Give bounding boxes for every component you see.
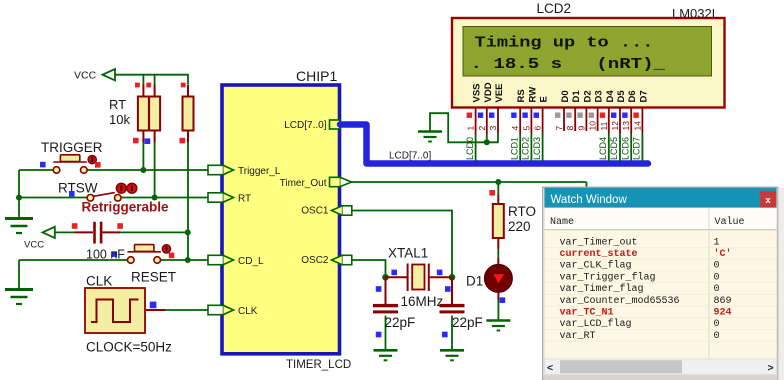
logic marker pin 11 <box>600 113 605 118</box>
wire pin 2 to ground net <box>486 134 488 143</box>
wire R1 to trigger net <box>142 143 144 171</box>
watch row var_Counter_mod65536 <box>545 305 777 307</box>
svg-text:D6: D6 <box>627 90 638 102</box>
dialog header row <box>545 208 777 230</box>
svg-text:VEE: VEE <box>494 83 505 102</box>
pin OSC2 <box>332 255 352 264</box>
watch row var_CLK_flag <box>545 270 777 272</box>
pin RTO top lead <box>497 195 499 204</box>
svg-text:1: 1 <box>466 126 476 131</box>
pin D1 cathode lead <box>497 292 499 300</box>
svg-text:var_CLK_flag: var_CLK_flag <box>560 260 632 272</box>
pin 2 VDD lead <box>486 108 488 134</box>
logic marker pin 14 <box>633 113 638 118</box>
svg-text:OSC1: OSC1 <box>301 206 329 217</box>
switch RTSW <box>87 193 121 202</box>
pin R2 bottom lead <box>154 131 156 143</box>
dialog close button <box>760 191 776 207</box>
wire R3 down to CD_L net <box>187 143 189 261</box>
wire: VCC top rail <box>115 75 189 84</box>
svg-text:var_Timer_flag: var_Timer_flag <box>560 283 644 295</box>
svg-text:1: 1 <box>714 237 720 248</box>
resistor RTO 220 <box>493 204 504 238</box>
actuator RESET button <box>162 245 170 253</box>
watch row var_RT <box>545 340 777 342</box>
node junction Timer_Out/RTO <box>495 179 501 185</box>
LCD screen <box>463 27 712 77</box>
svg-text:LCD7: LCD7 <box>632 137 642 160</box>
pin 3 VEE lead <box>497 108 499 134</box>
wire pin 3 to ground net <box>497 134 499 143</box>
pin 5 RW lead <box>530 108 532 134</box>
wire pin 13 to bus <box>630 134 632 162</box>
pin 4 RS lead <box>519 108 521 134</box>
node junction R2/RT net <box>152 195 158 201</box>
svg-text:var_Timer_out: var_Timer_out <box>560 236 638 248</box>
wire OSC2 net <box>352 260 386 277</box>
wire to RTO <box>497 182 499 195</box>
wire OSC1 net <box>352 211 452 278</box>
svg-text:LCD4: LCD4 <box>598 137 608 160</box>
bus LCD[7..0] <box>340 125 648 164</box>
pin 1 VSS lead <box>475 108 477 134</box>
svg-text:RTO: RTO <box>508 204 536 219</box>
logic markers (state squares) <box>135 83 140 88</box>
pin R3 bottom lead <box>187 131 189 143</box>
dialog bottom edge <box>545 375 777 380</box>
wire clk to chip <box>165 309 209 311</box>
wire LCD ground net <box>430 113 499 142</box>
watch row current_state <box>545 258 777 260</box>
pin C1 left lead <box>75 231 93 233</box>
capacitor C1 100nF <box>93 222 96 244</box>
wire pin 14 to bus <box>641 134 643 162</box>
wire trigger left <box>19 169 54 171</box>
svg-text:D3: D3 <box>594 90 605 102</box>
pin 8 D1 lead <box>574 108 576 132</box>
svg-text:LCD3: LCD3 <box>532 137 542 160</box>
watch row var_TC_N1 <box>545 317 777 319</box>
pin 12 D5 lead <box>619 108 621 134</box>
pin 13 D6 lead <box>630 108 632 134</box>
push button RESET <box>128 245 161 264</box>
diode LED D1 <box>484 264 512 292</box>
svg-text:D5: D5 <box>616 90 627 103</box>
svg-text:0: 0 <box>714 284 720 295</box>
pin CLK gen output lead <box>145 309 165 311</box>
svg-text:LCD[7..0]: LCD[7..0] <box>389 150 431 161</box>
pin D1 anode lead <box>497 258 499 265</box>
svg-text:8: 8 <box>565 126 575 131</box>
pin RTO bottom lead <box>497 238 499 249</box>
wire RT net left <box>19 197 87 199</box>
pin 14 D7 lead <box>641 108 643 134</box>
logic marker pin 5 <box>522 113 527 118</box>
svg-text:0: 0 <box>714 261 720 272</box>
pin CLK <box>208 305 234 314</box>
watch row var_LCD_flag <box>545 328 777 330</box>
dialog scrollbar <box>545 359 777 375</box>
svg-text:'C': 'C' <box>714 248 732 260</box>
pin R1 top lead <box>142 85 144 97</box>
chip U CHIP1 TIMER_LCD body <box>222 85 340 354</box>
logic marker pin 8 <box>566 113 571 118</box>
svg-text:12: 12 <box>610 121 620 131</box>
node junction left rail/RT net <box>16 195 22 201</box>
svg-text:>: > <box>768 362 774 374</box>
svg-text:LCD1: LCD1 <box>509 137 519 160</box>
logic marker pin 2 <box>478 113 483 118</box>
pin 7 D0 lead <box>563 108 565 132</box>
svg-text:RS: RS <box>516 89 527 102</box>
svg-text:RT: RT <box>109 97 126 112</box>
svg-text:RW: RW <box>527 87 538 103</box>
svg-text:6: 6 <box>533 126 543 131</box>
dialog content area <box>545 208 777 359</box>
pin LCD[7..0] bus pin <box>330 120 341 129</box>
svg-text:LCD6: LCD6 <box>620 137 630 160</box>
node junction OSC2/XTAL left <box>382 274 389 281</box>
pin C3 top lead <box>451 277 453 305</box>
wire vcc to C1 <box>55 231 75 233</box>
svg-text:13: 13 <box>621 121 631 131</box>
svg-text:D1: D1 <box>571 90 582 103</box>
svg-text:Value: Value <box>715 216 745 228</box>
svg-text:CHIP1: CHIP1 <box>296 68 337 84</box>
wire left rail <box>18 170 20 198</box>
pin XTAL right lead <box>429 276 452 278</box>
push button TRIGGER <box>53 155 87 174</box>
logic marker pin 12 <box>611 113 616 118</box>
svg-text:LCD5: LCD5 <box>609 137 619 160</box>
wire pin 12 to bus <box>619 134 621 162</box>
svg-text:var_LCD_flag: var_LCD_flag <box>560 318 632 330</box>
svg-text:220: 220 <box>508 219 531 234</box>
svg-text:0: 0 <box>714 319 720 330</box>
svg-text:16MHz: 16MHz <box>401 294 444 309</box>
svg-text:CLK: CLK <box>238 306 258 317</box>
svg-text:0: 0 <box>714 272 720 283</box>
svg-text:var_Counter_mod65536: var_Counter_mod65536 <box>560 295 680 307</box>
wire left rail 2 <box>18 260 20 290</box>
logic marker pin 13 <box>622 113 627 118</box>
svg-text:VDD: VDD <box>483 82 494 102</box>
svg-text:<: < <box>547 362 553 374</box>
wire Timer_Out net <box>352 181 587 183</box>
resistor R3 (10k) <box>183 97 194 131</box>
svg-text:RTSW: RTSW <box>58 181 98 196</box>
svg-text:4: 4 <box>510 126 520 131</box>
pin R1 bottom lead <box>142 131 144 143</box>
resistor R1 (RT 10k) <box>138 97 149 131</box>
svg-text:LCD[7..0]: LCD[7..0] <box>284 120 326 131</box>
actuator TRIGGER button <box>88 155 96 163</box>
wire C3 to ground <box>451 316 453 350</box>
svg-text:TRIGGER: TRIGGER <box>41 140 103 155</box>
logic marker pin 7 <box>555 113 560 118</box>
watch row var_Timer_flag <box>545 293 777 295</box>
wire Timer_Out bend down <box>586 182 588 187</box>
node junction C1/CD_L <box>185 229 191 235</box>
svg-text:869: 869 <box>714 296 732 307</box>
dialog Watch Window <box>543 187 779 380</box>
pin 11 D4 lead <box>608 108 610 134</box>
pin C1 right lead <box>102 231 120 233</box>
wire RT net to chip <box>121 197 209 199</box>
svg-text:E: E <box>539 96 550 102</box>
value label 100 nF <box>111 251 117 257</box>
svg-text:Retriggerable: Retriggerable <box>82 200 170 215</box>
svg-text:. 18.5 s (nRT)_: . 18.5 s (nRT)_ <box>471 56 667 73</box>
svg-text:Timer_Out: Timer_Out <box>280 178 327 189</box>
wire to ground <box>18 198 20 219</box>
pin 10 D3 lead <box>597 108 599 132</box>
svg-text:10: 10 <box>588 121 598 131</box>
ground (below C3) <box>440 350 464 360</box>
svg-text:VCC: VCC <box>74 70 97 82</box>
svg-text:D7: D7 <box>638 90 649 102</box>
wire pin 5 to bus <box>530 134 532 162</box>
pin XTAL left lead <box>386 276 408 278</box>
svg-text:var_RT: var_RT <box>560 331 596 342</box>
svg-text:10k: 10k <box>109 112 130 127</box>
svg-text:CD_L: CD_L <box>238 256 264 267</box>
actuator RTSW down <box>127 183 137 193</box>
ground (below C2) <box>374 350 398 360</box>
watch row var_Trigger_flag <box>545 282 777 284</box>
wire reset to chip <box>161 259 209 261</box>
svg-text:7: 7 <box>554 126 564 131</box>
wire R2 to RT net <box>154 143 156 198</box>
wire trigger to chip <box>87 169 209 171</box>
svg-text:Watch Window: Watch Window <box>551 194 628 206</box>
wire D1 to ground <box>497 300 499 320</box>
svg-text:D2: D2 <box>582 90 593 102</box>
wire R1 top <box>142 75 144 85</box>
svg-text:9: 9 <box>576 126 586 131</box>
clock generator CLK <box>85 288 145 333</box>
capacitor C3 22pF <box>440 304 465 307</box>
wire pin 1 to bus <box>475 134 477 162</box>
pin R2 top lead <box>154 85 156 97</box>
svg-text:TIMER_LCD: TIMER_LCD <box>286 359 351 371</box>
wire C1 to CD_L net <box>120 231 188 233</box>
wire pin 4 to bus <box>519 134 521 162</box>
node junction R3/CD_L net <box>185 257 191 263</box>
actuator RTSW up <box>116 183 126 193</box>
svg-text:LCD2: LCD2 <box>521 137 531 160</box>
node junction R1/trigger <box>140 167 146 173</box>
ground (left upper) <box>5 219 33 234</box>
wire RTO to D1 <box>497 249 499 258</box>
logic marker pin 6 <box>534 113 539 118</box>
svg-text:RESET: RESET <box>131 270 176 285</box>
svg-text:LM032L: LM032L <box>672 6 719 21</box>
svg-text:22pF: 22pF <box>452 315 483 330</box>
svg-text:RT: RT <box>238 193 251 204</box>
capacitor C2 22pF <box>373 304 398 307</box>
svg-text:22pF: 22pF <box>385 315 416 330</box>
pin R3 top lead <box>187 85 189 97</box>
logic marker pin 4 <box>511 113 516 118</box>
wire reset left <box>19 259 127 261</box>
svg-text:LCD2: LCD2 <box>537 1 572 16</box>
svg-text:5: 5 <box>521 126 531 131</box>
node junction OSC1/XTAL right <box>449 274 456 281</box>
pin C2 top lead <box>385 277 387 305</box>
svg-text:Trigger_L: Trigger_L <box>238 166 281 177</box>
logic marker pin 3 <box>489 113 494 118</box>
pin OSC1 <box>332 206 352 215</box>
ground (left lower) <box>5 290 33 305</box>
wire R2 top <box>154 75 156 85</box>
wire C2 to ground <box>385 316 387 350</box>
pin Timer_Out (output) <box>330 177 352 186</box>
svg-text:var_Trigger_flag: var_Trigger_flag <box>560 271 656 283</box>
pin 9 D2 lead <box>585 108 587 132</box>
svg-text:D1: D1 <box>466 274 483 289</box>
svg-text:VSS: VSS <box>472 83 483 102</box>
svg-text:Name: Name <box>550 217 574 228</box>
svg-text:CLK: CLK <box>86 274 112 289</box>
power flag VCC (top) <box>103 69 116 80</box>
logic marker pin 1 <box>467 113 472 118</box>
svg-text:x: x <box>765 195 771 206</box>
node junction pin2/ground net <box>484 139 490 145</box>
svg-text:11: 11 <box>599 121 609 130</box>
svg-text:OSC2: OSC2 <box>301 255 329 266</box>
svg-text:Timing up to ...: Timing up to ... <box>475 34 654 51</box>
svg-text:VCC: VCC <box>24 240 44 251</box>
pin RT <box>208 193 234 202</box>
LCD module LCD2 LM032L frame <box>452 18 725 108</box>
svg-text:LCD0: LCD0 <box>465 137 475 160</box>
resistor R2 (10k) <box>149 97 160 131</box>
svg-text:D4: D4 <box>605 90 616 103</box>
ground (below D1) <box>486 321 510 331</box>
logic marker pin 10 <box>589 113 594 118</box>
pin Trigger_L <box>208 165 234 174</box>
logic marker pin 9 <box>577 113 582 118</box>
ground (LCD) <box>418 132 442 142</box>
svg-text:XTAL1: XTAL1 <box>388 246 428 261</box>
pin 6 E lead <box>542 108 544 134</box>
svg-text:var_TC_N1: var_TC_N1 <box>560 308 614 319</box>
svg-text:3: 3 <box>488 126 498 131</box>
svg-text:CLOCK=50Hz: CLOCK=50Hz <box>86 340 172 355</box>
pin CD_L <box>208 255 234 264</box>
watch row var_Timer_out <box>545 247 777 249</box>
svg-text:current_state: current_state <box>560 249 638 260</box>
wire pin 11 to bus <box>608 134 610 162</box>
wire pin 6 to bus <box>542 134 544 162</box>
power flag VCC (lower) <box>43 227 55 238</box>
svg-text:924: 924 <box>714 308 732 319</box>
svg-text:14: 14 <box>632 121 642 131</box>
dialog right shadow edge <box>778 188 784 380</box>
svg-text:0: 0 <box>714 331 720 342</box>
svg-text:2: 2 <box>477 126 487 131</box>
svg-text:D0: D0 <box>560 90 571 102</box>
crystal XTAL1 <box>408 264 429 292</box>
